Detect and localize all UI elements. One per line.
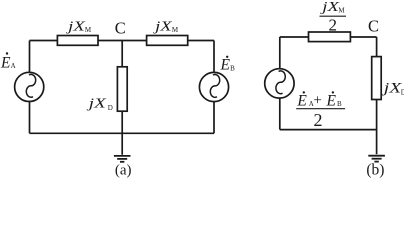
reactance box jX_M/2 (b) [309, 32, 351, 42]
ground (a) [114, 156, 131, 162]
label jX_D (b) [381, 80, 404, 96]
svg-text:+: + [313, 93, 321, 109]
label jX_M right (a) [152, 19, 178, 34]
wire: circuit (a) middle branch upper (node C to box) [121, 41, 123, 67]
wire: circuit (a) right branch upper [213, 41, 215, 73]
svg-text:jX: jX [86, 96, 106, 111]
label jX_M left (a) [66, 19, 92, 34]
svg-text:E: E [0, 54, 11, 71]
ground (b) [368, 156, 385, 162]
reactance box jX_M right (a) [147, 36, 188, 46]
wire: circuit (a) right branch lower [213, 102, 215, 134]
source E_A: AC source circle [15, 72, 44, 101]
label E_A (a) [0, 52, 16, 71]
reactance box jX_D (b) [372, 57, 382, 100]
svg-text:2: 2 [329, 15, 338, 34]
svg-text:(a): (a) [115, 162, 132, 178]
label jX_D (a) [86, 96, 113, 111]
source (E_A+E_B)/2: AC source circle [265, 69, 294, 98]
svg-text:M: M [338, 6, 345, 14]
svg-text:E: E [220, 57, 231, 74]
wire: circuit (a) bottom wire [30, 132, 215, 134]
wire: circuit (b) bottom wire [280, 129, 377, 131]
reactance box jX_M left (a) [57, 36, 98, 46]
svg-text:C: C [368, 17, 379, 36]
wire: circuit (a) left branch upper [29, 41, 31, 73]
source (E_A+E_B)/2: sine squiggle [276, 71, 285, 94]
wire: circuit (b) right branch lower (box to ground) [376, 100, 378, 155]
svg-text:jX: jX [152, 19, 172, 34]
svg-text:B: B [230, 65, 235, 73]
reactance box jX_D (a) [117, 67, 127, 111]
label E_B (a) [220, 56, 236, 74]
wire: circuit (b) right branch upper [376, 37, 378, 57]
label E_B numerator (b) [326, 91, 343, 109]
wire: circuit (b) left branch upper [279, 37, 281, 69]
svg-text:C: C [115, 18, 126, 37]
svg-text:jX: jX [66, 19, 86, 34]
wire: circuit (a) top wire [30, 40, 215, 42]
source E_B: AC source circle [199, 72, 228, 101]
wire: circuit (a) middle branch lower (box to ground) [121, 111, 123, 155]
svg-text:M: M [172, 26, 179, 34]
svg-text:A: A [11, 62, 16, 70]
svg-text:jX: jX [320, 0, 340, 15]
wire: circuit (a) left branch lower [29, 101, 31, 133]
svg-text:M: M [85, 26, 92, 34]
wire: circuit (b) left branch lower [279, 98, 281, 129]
svg-text:jX: jX [381, 80, 402, 96]
svg-text:(b): (b) [366, 162, 384, 179]
svg-text:E: E [326, 92, 337, 109]
fraction bar (E_A+E_B)/2 (b) [296, 108, 345, 110]
svg-text:D: D [108, 104, 113, 112]
svg-text:2: 2 [314, 110, 323, 130]
svg-text:B: B [337, 100, 342, 108]
label jX_M numerator (b) [320, 0, 346, 15]
fraction bar jX_M/2 (b) [320, 15, 347, 17]
label E_A numerator (b) [296, 91, 313, 109]
source E_A: sine squiggle [26, 74, 35, 97]
svg-text:E: E [296, 92, 307, 109]
source E_B: sine squiggle [210, 75, 219, 98]
wire: circuit (b) top wire [280, 36, 377, 38]
